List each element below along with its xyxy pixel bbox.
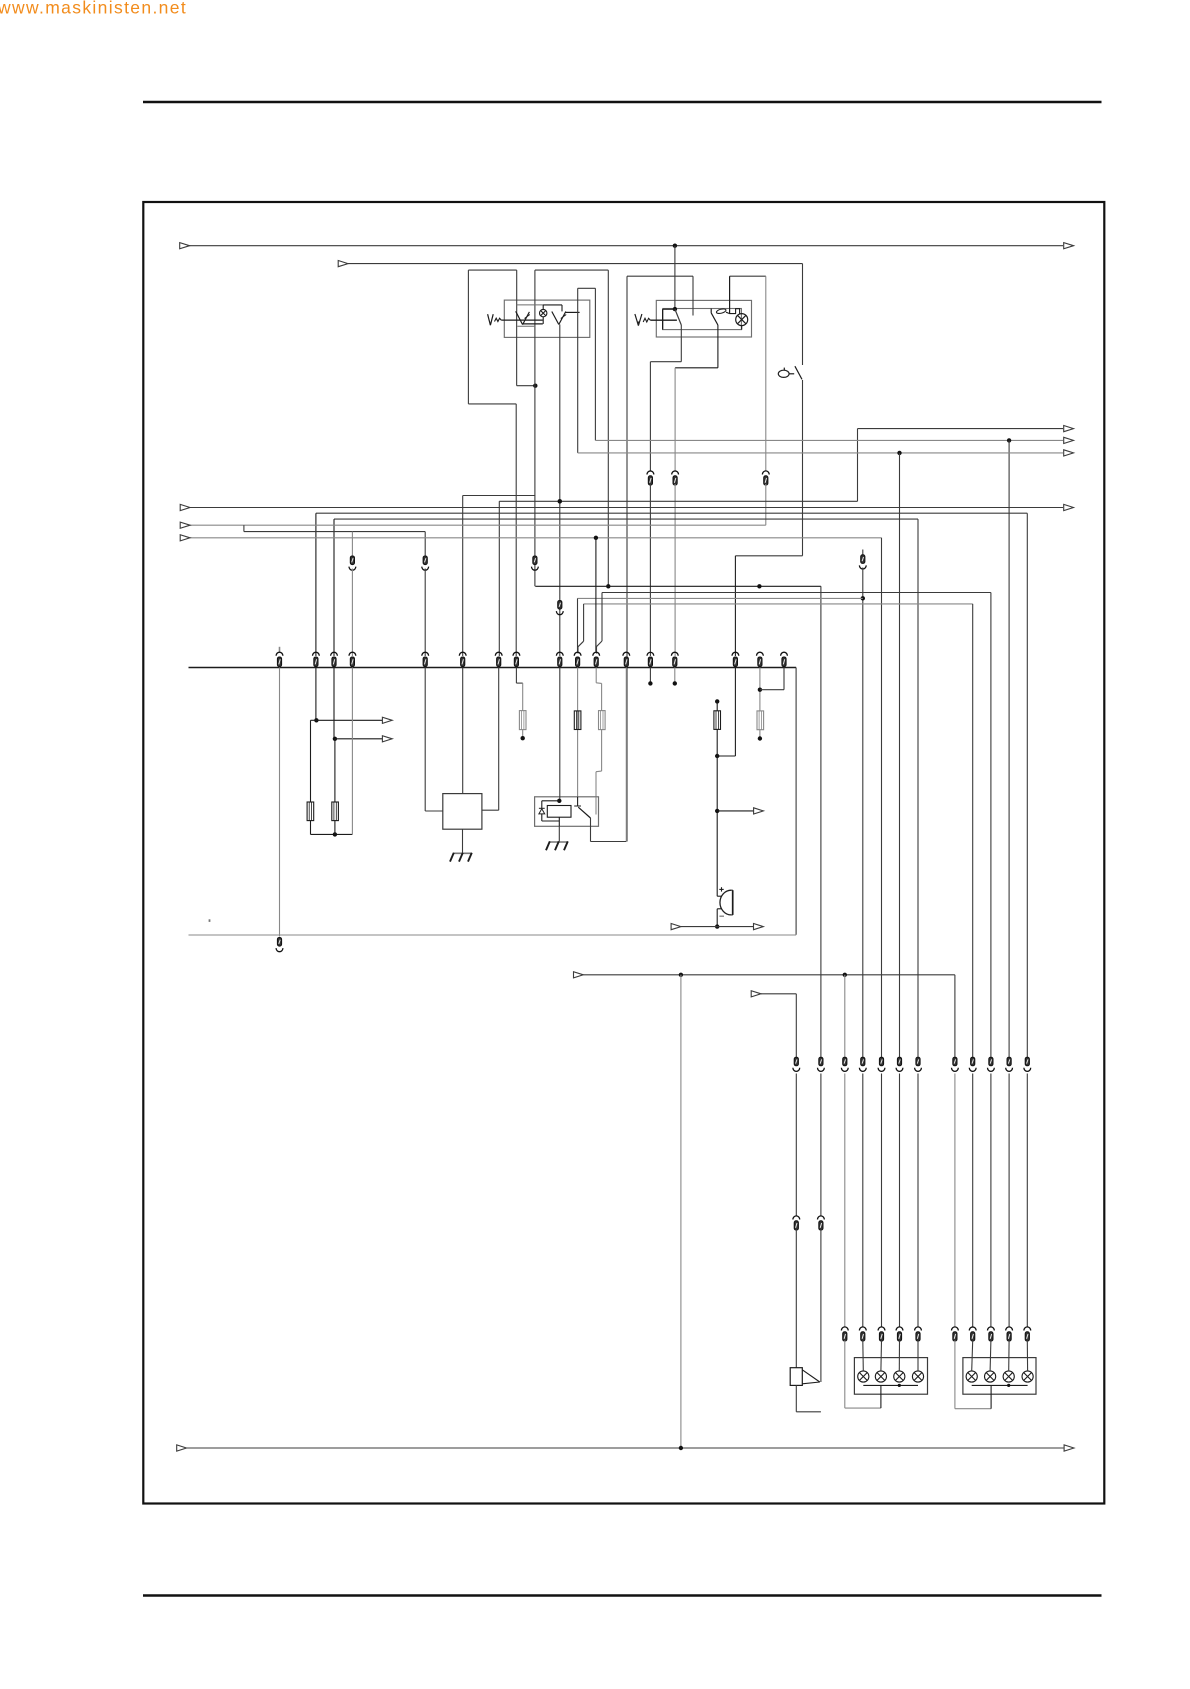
svg-text:www.maskinisten.net: www.maskinisten.net bbox=[0, 0, 187, 18]
